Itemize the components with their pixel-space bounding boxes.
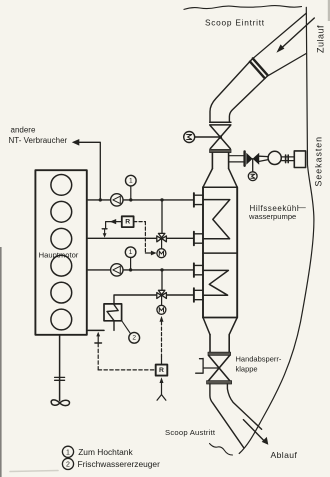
svg-text:Handabsperr-: Handabsperr- xyxy=(236,355,282,364)
motor M1 xyxy=(184,132,219,143)
lower squiggle xyxy=(210,444,233,456)
svg-text:R: R xyxy=(125,219,130,226)
valve V3 actuator xyxy=(248,159,257,181)
outlet flow arrow (Ablauf) xyxy=(243,420,268,445)
regulator R2 xyxy=(156,365,168,376)
node 2 (Frischwassererzeuger) xyxy=(129,332,140,343)
inlet pipe upper wall xyxy=(210,60,252,122)
cooler bottom xyxy=(203,317,237,319)
svg-text:R: R xyxy=(159,367,164,374)
stub flange 1 xyxy=(194,193,203,207)
svg-text:2: 2 xyxy=(132,335,136,342)
svg-text:Seekasten: Seekasten xyxy=(314,136,324,187)
svg-text:NT- Verbraucher: NT- Verbraucher xyxy=(9,136,68,145)
outlet pipe right wall xyxy=(227,384,261,429)
svg-text:Scoop Eintritt: Scoop Eintritt xyxy=(205,18,265,28)
hull line xyxy=(239,7,314,453)
paper edge artifacts xyxy=(0,247,2,477)
motor M2b xyxy=(157,295,166,314)
riser to valve V2a xyxy=(161,200,163,234)
propeller shaft xyxy=(59,335,61,401)
pipe row 1 xyxy=(88,199,193,201)
hand valve handle xyxy=(196,358,219,373)
riser to valve V2b xyxy=(161,270,163,291)
legend node 2 xyxy=(62,458,73,469)
legend xyxy=(62,446,73,469)
valve V1 bottom flange xyxy=(210,149,231,152)
svg-text:1: 1 xyxy=(129,249,133,256)
upper flange of hand valve xyxy=(208,352,231,355)
butterfly valve V1 xyxy=(210,126,230,149)
svg-text:1: 1 xyxy=(66,449,70,456)
svg-text:Zum Hochtank: Zum Hochtank xyxy=(78,447,133,457)
R2 lower sensor input xyxy=(157,377,166,400)
pipe row 3 xyxy=(88,269,193,271)
branch pipe to pump xyxy=(229,156,243,162)
valve V1 top flange xyxy=(210,122,231,125)
lower coil xyxy=(204,270,229,295)
three-way valve V2a xyxy=(157,233,167,241)
cooler body walls xyxy=(203,187,237,317)
R1 sensor link xyxy=(102,219,122,238)
three-way valve V2b xyxy=(157,290,167,298)
sea chest box (Seekasten) xyxy=(294,151,305,168)
svg-text:2: 2 xyxy=(66,461,70,468)
cooler shoulder xyxy=(203,169,237,188)
stub flange 3 xyxy=(194,263,203,277)
valve V3 xyxy=(246,153,259,165)
R2 sensor dashed link xyxy=(98,369,156,371)
engine bottom pipe xyxy=(88,329,104,331)
NT-Verbraucher arrow xyxy=(72,139,101,200)
engine outlet sensor xyxy=(95,332,102,370)
cooler bottom funnel xyxy=(203,318,237,335)
lower flange of hand valve xyxy=(207,381,232,384)
node 2 leader xyxy=(122,321,130,333)
branch flange xyxy=(243,151,245,165)
svg-text:1: 1 xyxy=(129,178,133,185)
upper coil xyxy=(204,200,230,239)
flow indicator P2 xyxy=(111,264,123,276)
svg-text:wasserpumpe: wasserpumpe xyxy=(248,212,296,221)
R1 control to M2a xyxy=(134,222,157,256)
flow indicator P1 xyxy=(111,194,123,206)
svg-text:Hauptmotor: Hauptmotor xyxy=(39,250,79,259)
svg-text:Scoop Austritt: Scoop Austritt xyxy=(165,428,216,437)
control line to M2b xyxy=(160,316,164,365)
inlet flow arrow (Zulauf) xyxy=(276,18,314,53)
pipe row 4 xyxy=(114,295,193,304)
scoop inlet funnel lower wall xyxy=(267,54,306,77)
pipe row 2 xyxy=(88,237,193,239)
svg-text:andere: andere xyxy=(11,126,36,135)
svg-text:klappe: klappe xyxy=(236,364,258,373)
waterline xyxy=(184,6,302,10)
heat exchanger (Frischwassererzeuger) xyxy=(104,304,122,331)
hand shut-off flap (Handabsperrklappe) xyxy=(209,356,230,381)
engine cylinders xyxy=(51,175,72,330)
outlet pipe left wall xyxy=(210,384,244,448)
faint smudge bottom-left xyxy=(10,471,58,472)
cooler divider xyxy=(203,252,237,254)
svg-text:Zulauf: Zulauf xyxy=(316,25,326,53)
node 1b (Zum Hochtank) xyxy=(125,247,136,270)
inlet pipe lower wall xyxy=(229,76,267,121)
motor M2a xyxy=(157,239,166,258)
svg-text:—: — xyxy=(298,203,306,212)
shaft coupling xyxy=(55,377,65,380)
propeller xyxy=(51,400,69,406)
regulator R1 xyxy=(122,216,134,227)
cooler bottom neck xyxy=(210,335,229,353)
stub flange 2 xyxy=(194,232,203,246)
stub flange 4 xyxy=(194,288,203,302)
svg-text:Frischwassererzeuger: Frischwassererzeuger xyxy=(78,459,161,469)
junction dots xyxy=(99,198,164,271)
cooler neck upper xyxy=(212,153,228,169)
scoop inlet funnel upper wall xyxy=(252,13,307,59)
main engine (Hauptmotor) xyxy=(35,170,86,335)
pump (Hilfsseekühlwasserpumpe) xyxy=(259,151,294,164)
legend node 1 xyxy=(62,446,73,457)
inlet pipe flange xyxy=(253,58,268,75)
node 1a (Zum Hochtank) xyxy=(126,175,137,200)
svg-text:Ablauf: Ablauf xyxy=(271,450,298,460)
